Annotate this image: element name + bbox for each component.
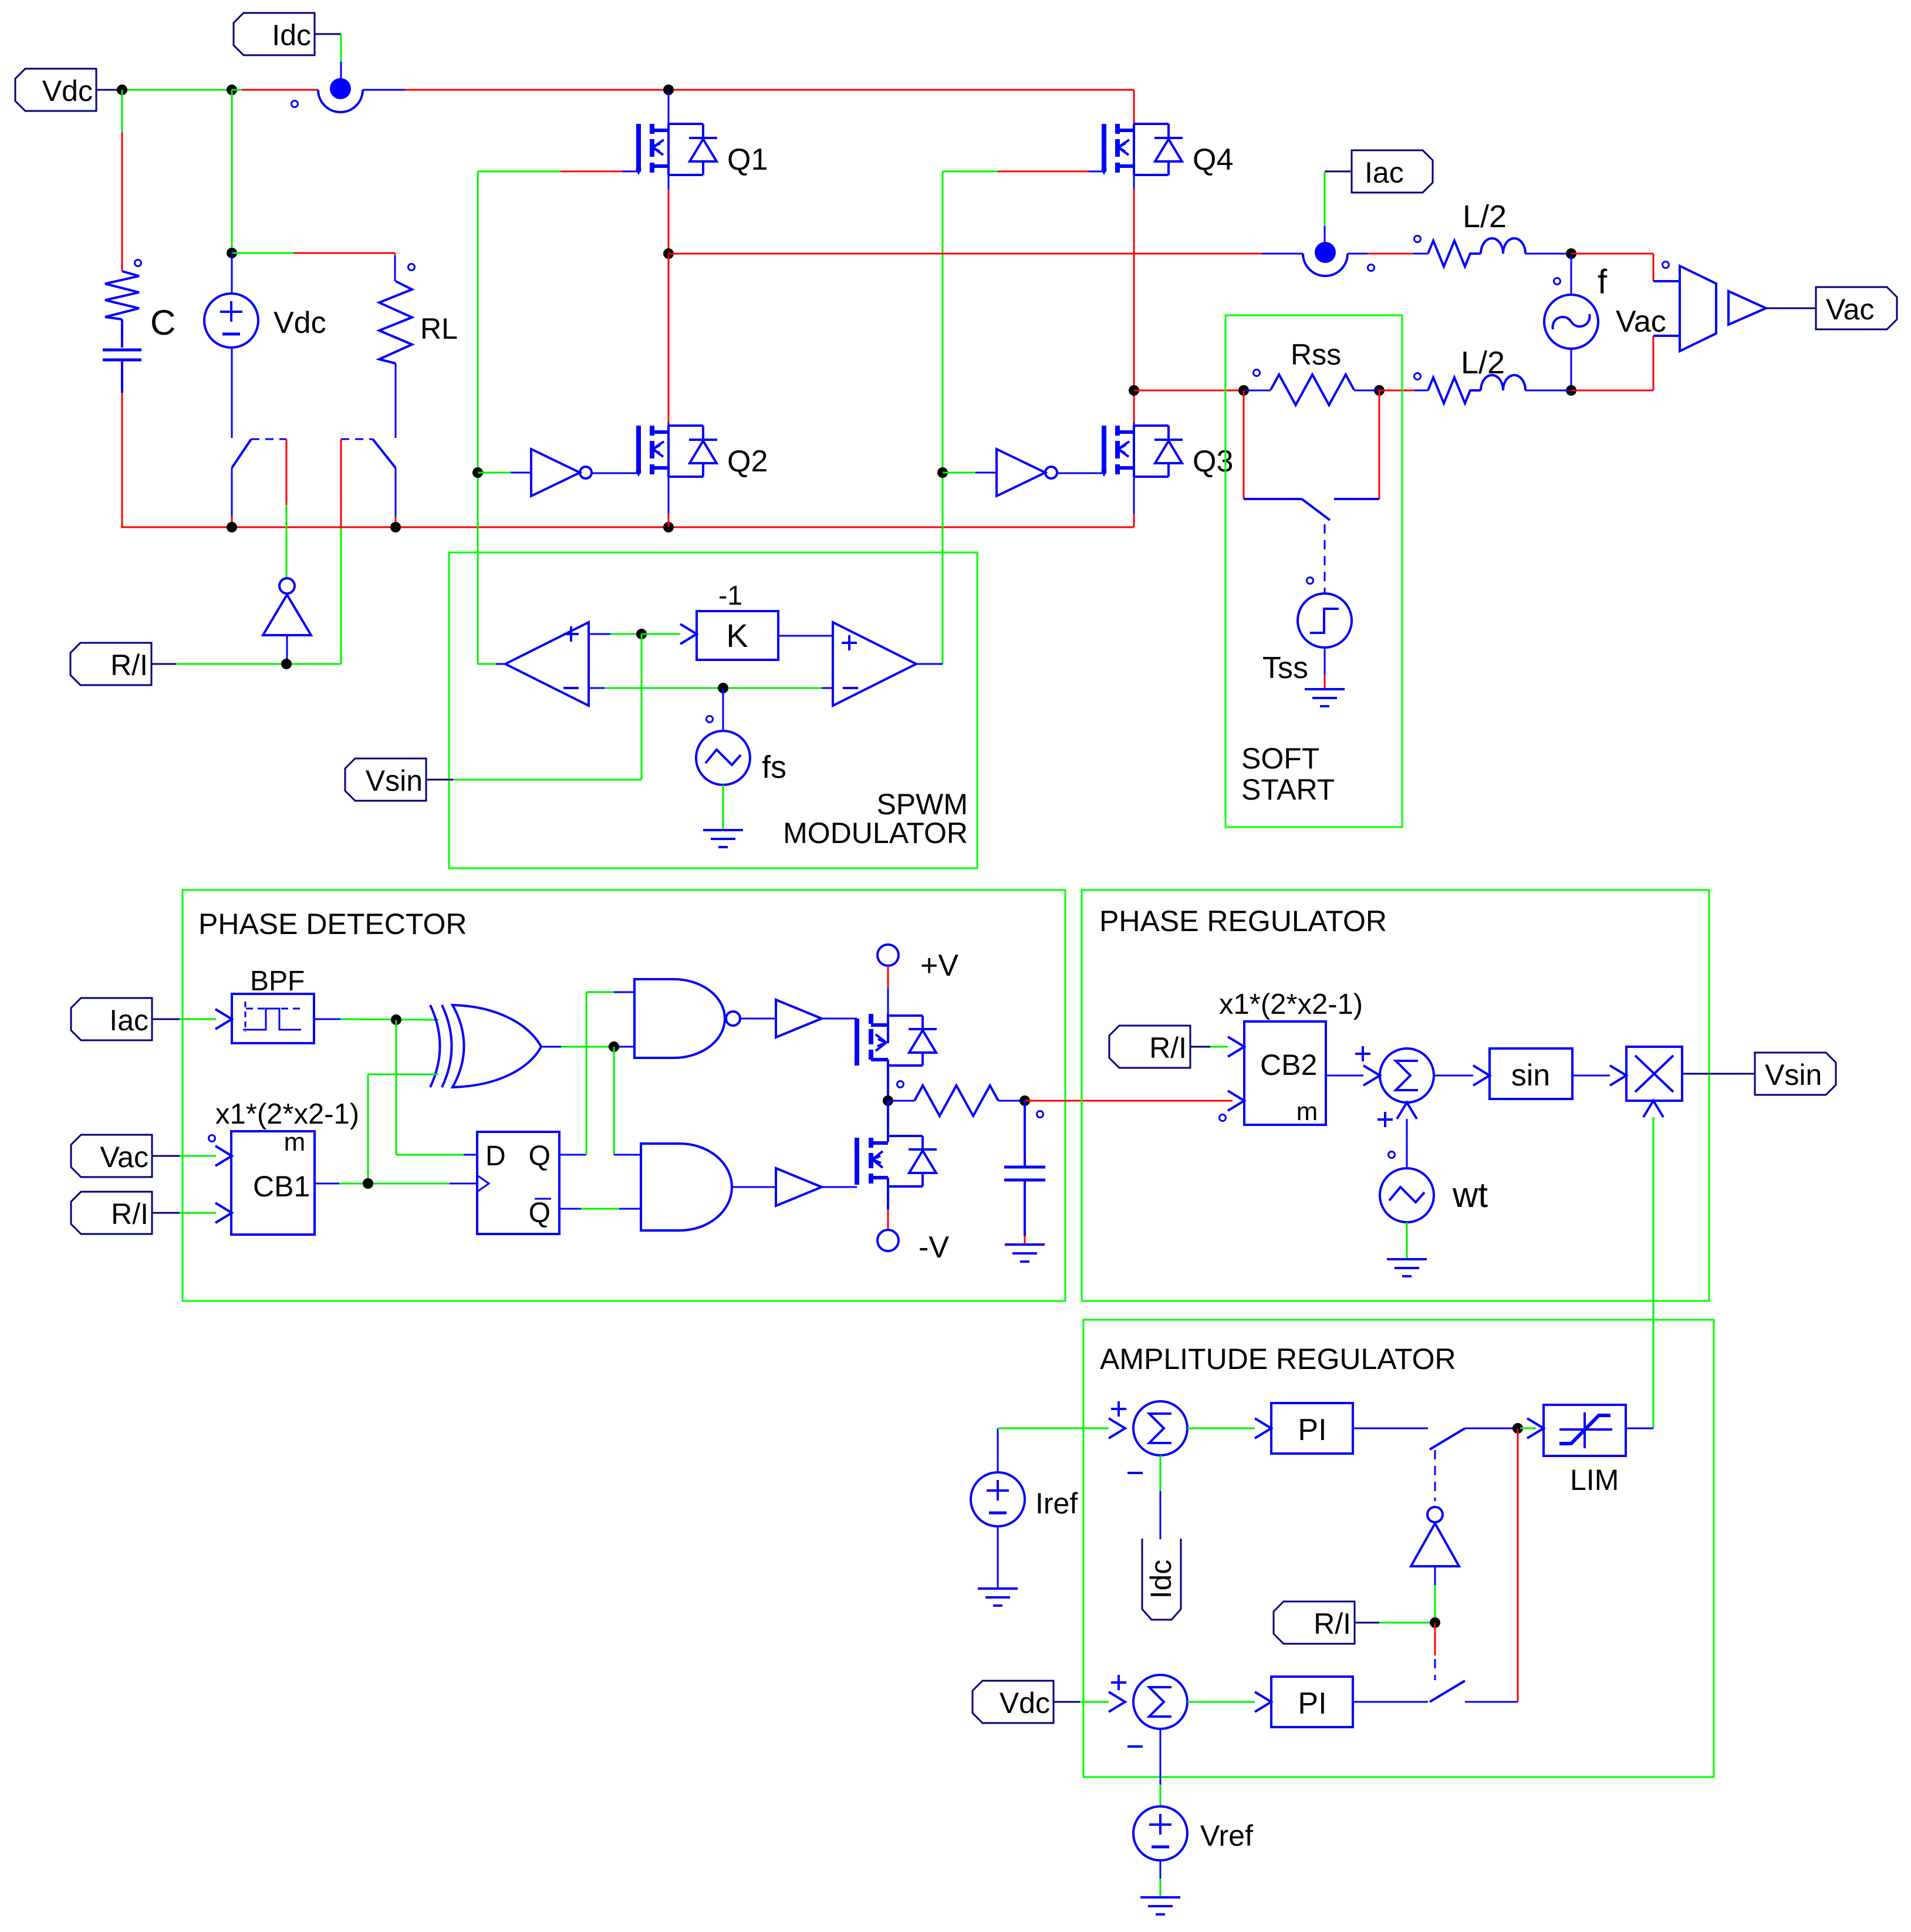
wire summer to sin bbox=[1434, 1066, 1490, 1085]
svg-text:K: K bbox=[726, 617, 748, 654]
junction output node top bbox=[1566, 248, 1576, 259]
wire PI1 to switch bbox=[1353, 1428, 1428, 1429]
label -1 bbox=[718, 580, 742, 611]
svg-text:MODULATOR: MODULATOR bbox=[783, 817, 968, 849]
tag Idc (rotated) bbox=[1142, 1539, 1181, 1620]
junction bottom rail Vdc bbox=[227, 522, 237, 532]
wire Vsin node to K bbox=[641, 624, 697, 644]
svg-text:CB1: CB1 bbox=[253, 1170, 310, 1203]
svg-text:x1*(2*x2-1): x1*(2*x2-1) bbox=[215, 1098, 359, 1130]
junction top rail at Q1 bbox=[663, 85, 674, 95]
svg-text:START: START bbox=[1241, 773, 1335, 806]
box SOFT START bbox=[1225, 315, 1402, 827]
svg-text:m: m bbox=[1296, 1097, 1318, 1126]
tag R/I (rectifier/inverter mode) bbox=[70, 643, 176, 685]
gate NAND1 bbox=[634, 979, 740, 1058]
gain block K (-1) bbox=[697, 611, 778, 660]
resistor RL bbox=[379, 264, 415, 439]
wire Rss to L/2 bottom bbox=[1379, 390, 1428, 392]
block CB2 x1*(2*x2-1) bbox=[1220, 1021, 1326, 1126]
label C bbox=[150, 303, 175, 342]
svg-text:L/2: L/2 bbox=[1461, 345, 1505, 380]
wire output bottom to probe bbox=[1571, 336, 1680, 390]
wire Q4 gate bbox=[943, 171, 1104, 173]
junction bottom rail Q2 bbox=[663, 522, 674, 532]
wire inverter output rail (midpoint to L/2) bbox=[668, 253, 1303, 255]
wire R/I to CB1 bbox=[180, 1203, 232, 1223]
svg-text:Q2: Q2 bbox=[727, 444, 768, 478]
box PHASE DETECTOR bbox=[183, 890, 1065, 1301]
wire CMP1 plus input bbox=[589, 633, 641, 635]
box AMPLITUDE REGULATOR bbox=[1083, 1320, 1714, 1777]
label wt bbox=[1452, 1175, 1488, 1215]
label SPWM MODULATOR bbox=[783, 788, 968, 849]
label Q1 bbox=[727, 143, 768, 177]
block sin bbox=[1490, 1048, 1572, 1099]
svg-text:Q4: Q4 bbox=[1193, 143, 1233, 177]
inverter NOT gate for S1 (pointing up) bbox=[263, 578, 311, 664]
wire CB2 to summer bbox=[1326, 1066, 1380, 1085]
wire PI2 to switch bbox=[1353, 1701, 1428, 1703]
svg-text:-V: -V bbox=[919, 1230, 949, 1265]
wire Vdc node vertical bbox=[231, 90, 233, 253]
label x1*(2*x2-1) CB2 bbox=[1219, 989, 1363, 1020]
svg-text:wt: wt bbox=[1452, 1175, 1488, 1215]
wire Iac to BPF bbox=[180, 1009, 232, 1029]
ground (Iref) bbox=[978, 1589, 1018, 1606]
label Q2 bbox=[727, 444, 768, 478]
svg-text:L/2: L/2 bbox=[1463, 199, 1507, 234]
wire Vdc node to RL corner bbox=[232, 253, 395, 281]
label LIM bbox=[1570, 1464, 1619, 1496]
step source Tss bbox=[1298, 578, 1352, 648]
wire AND to buffer bbox=[732, 1186, 776, 1188]
svg-text:Vdc: Vdc bbox=[1000, 1687, 1050, 1719]
wire L/2 top to output node bbox=[1525, 253, 1571, 255]
svg-text:R/I: R/I bbox=[1149, 1031, 1187, 1064]
wire Vsin to plus node bbox=[453, 634, 641, 780]
transistor M1 (pull-up) bbox=[857, 1014, 937, 1101]
ground (soft start) bbox=[1305, 689, 1345, 706]
junction Rss right bbox=[1374, 385, 1385, 396]
voltage sensor Vac probe bbox=[1663, 262, 1717, 352]
capacitor C (RC branch) bbox=[103, 260, 141, 393]
wire sin to multiplier bbox=[1572, 1066, 1626, 1085]
transistor Q4 (MOSFET) bbox=[1102, 124, 1183, 175]
junction XOR output node bbox=[609, 1041, 619, 1052]
svg-text:R/I: R/I bbox=[1314, 1607, 1351, 1640]
wire summer to PI1 bbox=[1187, 1418, 1271, 1438]
block LIM (limiter) bbox=[1544, 1405, 1626, 1456]
tag Idc (dc current label) bbox=[234, 13, 341, 55]
svg-text:R/I: R/I bbox=[111, 1198, 148, 1230]
comparator CMP1 (left leg) bbox=[505, 622, 589, 706]
junction Vsin node bbox=[636, 629, 647, 639]
label -V bbox=[919, 1230, 949, 1265]
wire PD output to CB2 bbox=[1025, 1101, 1233, 1118]
svg-text:sin: sin bbox=[1511, 1058, 1550, 1093]
wire R/I to CB2 bbox=[1210, 1037, 1244, 1057]
wire SW2 to LIM node bbox=[1517, 1428, 1519, 1702]
svg-text:Tss: Tss bbox=[1262, 651, 1308, 685]
wire XOR node to AND upper input bbox=[614, 1047, 641, 1155]
summer S3 (phase) bbox=[1355, 1046, 1434, 1127]
svg-text:SOFT: SOFT bbox=[1241, 742, 1319, 775]
transistor Q1 (MOSFET) bbox=[636, 90, 717, 175]
junction R/I at NOT gate bbox=[281, 659, 292, 669]
svg-text:Q: Q bbox=[529, 1198, 551, 1229]
label +V bbox=[920, 949, 958, 983]
label RL bbox=[420, 312, 458, 345]
wire Q4 drain to Q3 bbox=[1133, 175, 1135, 426]
transistor Q3 (MOSFET) bbox=[1102, 426, 1183, 477]
tag R/I (PR input) bbox=[1109, 1026, 1210, 1068]
junction CB1 output node bbox=[363, 1178, 373, 1189]
wire XOR output bbox=[541, 1046, 634, 1048]
wire top rail to Idc sensor bbox=[232, 89, 318, 91]
comparator CMP2 (right leg) bbox=[833, 622, 916, 706]
wire gate bus vertical (right leg) bbox=[942, 171, 944, 664]
label Q3 bbox=[1193, 444, 1233, 478]
svg-text:Iac: Iac bbox=[1365, 156, 1404, 189]
svg-text:PHASE REGULATOR: PHASE REGULATOR bbox=[1099, 905, 1387, 938]
wire buffer to M1 gate bbox=[822, 1018, 857, 1020]
svg-text:Vref: Vref bbox=[1200, 1819, 1253, 1852]
summer S2 (voltage loop) bbox=[1111, 1675, 1187, 1746]
svg-text:Vdc: Vdc bbox=[42, 75, 93, 107]
label L/2 bottom bbox=[1461, 345, 1505, 380]
svg-text:Vdc: Vdc bbox=[274, 306, 326, 340]
ground (wt) bbox=[1387, 1259, 1427, 1276]
wire K output to CMP2 plus bbox=[778, 635, 833, 637]
buffer U6 (low side) bbox=[776, 1168, 822, 1206]
svg-text:Vsin: Vsin bbox=[366, 764, 423, 797]
switch SW2 (mode select lower) bbox=[1430, 1681, 1518, 1702]
dc source Iref bbox=[971, 1428, 1025, 1589]
label Vdc source bbox=[274, 306, 326, 340]
node junction at Vdc column bbox=[227, 85, 237, 95]
tag R/I (mode input) bbox=[1274, 1601, 1379, 1644]
triangle source wt bbox=[1380, 1168, 1434, 1222]
svg-text:Vsin: Vsin bbox=[1765, 1058, 1822, 1091]
wire Idc tag drop to sensor bbox=[340, 34, 342, 79]
svg-text:LIM: LIM bbox=[1570, 1464, 1619, 1496]
current sensor Idc bbox=[292, 78, 363, 112]
switch Sss (soft start bypass) bbox=[1244, 499, 1379, 520]
wire mode node to SW2 control bbox=[1434, 1623, 1436, 1680]
resistor Rss bbox=[1244, 370, 1379, 406]
junction gate bus at Q2 NOT bbox=[472, 467, 483, 478]
box SPWM MODULATOR bbox=[449, 552, 977, 868]
inductor L/2 bottom (RL branch) bbox=[1414, 373, 1526, 404]
svg-text:Q3: Q3 bbox=[1193, 444, 1233, 478]
NOT gate U7 (mode invert) bbox=[1411, 1450, 1459, 1623]
label BPF bbox=[250, 966, 305, 997]
tag Vac output bbox=[1816, 287, 1897, 329]
wire bottom rail bbox=[121, 527, 1134, 528]
NOT gate U3 (Q3 driver) bbox=[943, 449, 1104, 496]
tag Iac (output current) bbox=[1325, 150, 1433, 193]
wire Qbar to AND lower input bbox=[559, 1208, 641, 1210]
svg-text:Rss: Rss bbox=[1291, 338, 1341, 371]
block PI1 bbox=[1271, 1403, 1353, 1454]
gate XOR1 bbox=[430, 1005, 541, 1087]
wire BPF output bbox=[314, 1019, 438, 1020]
junction gate bus at Q3 NOT bbox=[937, 467, 948, 478]
junction filter node bbox=[1019, 1095, 1030, 1106]
wire R/I to junction bbox=[1379, 1622, 1435, 1624]
junction mode node bbox=[1430, 1617, 1440, 1628]
junction BPF output node bbox=[391, 1014, 401, 1025]
switch S2 (RL column) bbox=[341, 439, 396, 527]
wire Q2 source to rail bbox=[668, 477, 670, 527]
wire Sss control linkage bbox=[1324, 524, 1326, 594]
triangle carrier source fs bbox=[696, 688, 750, 785]
junction bottom rail RL bbox=[390, 522, 401, 532]
wire left leg midpoint to Q2 bbox=[668, 254, 670, 426]
svg-text:Idc: Idc bbox=[272, 19, 311, 52]
wire Vdc to summer bbox=[1080, 1692, 1125, 1712]
label Tss bbox=[1262, 651, 1308, 685]
junction Vdc source top bbox=[227, 248, 237, 258]
wire Vac to CB1 bbox=[180, 1146, 232, 1166]
svg-text:f: f bbox=[1598, 263, 1608, 301]
label Q4 bbox=[1193, 143, 1233, 177]
wire Iref to summer bbox=[998, 1418, 1125, 1438]
junction left leg midpoint bbox=[663, 248, 674, 259]
wire fs to ground bbox=[722, 785, 724, 830]
wire L/2 bottom to output node bbox=[1525, 390, 1571, 392]
svg-text:C: C bbox=[150, 303, 175, 342]
tag Vsin output bbox=[1755, 1053, 1836, 1095]
junction LIM input node bbox=[1512, 1423, 1523, 1434]
switch SW1 (mode select upper) bbox=[1430, 1428, 1518, 1449]
label SOFT START bbox=[1241, 742, 1335, 806]
wire NAND to buffer bbox=[740, 1018, 776, 1020]
tag R/I (PD input) bbox=[71, 1192, 180, 1234]
tag Vdc (dc bus voltage) bbox=[15, 69, 122, 111]
wire wt to ground bbox=[1406, 1222, 1408, 1259]
wire LIM output up bbox=[1626, 1428, 1653, 1429]
label PHASE REGULATOR bbox=[1099, 905, 1387, 938]
wire Vref to ground bbox=[1160, 1860, 1162, 1897]
label Iref bbox=[1035, 1487, 1078, 1520]
tag Vac (PD input) bbox=[71, 1135, 180, 1177]
wire Q output to NAND upper input bbox=[559, 992, 634, 1155]
wire R/I to switch controls bbox=[176, 663, 341, 665]
label x1*(2*x2-1) CB1 bbox=[215, 1098, 359, 1130]
switch S1 (Vdc column) bbox=[232, 439, 286, 527]
wire sensor to L/2 top bbox=[1348, 253, 1428, 255]
buffer U5 (high side) bbox=[776, 1000, 822, 1037]
block CB1 x1*(2*x2-1) bbox=[209, 1128, 315, 1235]
wire buffer to M2 gate bbox=[822, 1186, 857, 1188]
wire C bottom to rail bbox=[121, 393, 123, 527]
capacitor C1 (PD filter) bbox=[1004, 1101, 1045, 1245]
wire Iac tag drop bbox=[1324, 171, 1326, 244]
block BPF (band pass filter) bbox=[232, 994, 314, 1043]
svg-text:R/I: R/I bbox=[110, 649, 148, 682]
terminal +V bbox=[877, 945, 899, 1014]
wire to LIM bbox=[1520, 1418, 1544, 1438]
wire gate bus vertical (left leg) bbox=[477, 171, 479, 662]
resistor R1 (PD output) bbox=[888, 1081, 1025, 1117]
svg-text:Q1: Q1 bbox=[727, 143, 768, 177]
flip-flop FF1 (D) bbox=[477, 1132, 559, 1234]
svg-text:PI: PI bbox=[1298, 1687, 1326, 1721]
label Rss bbox=[1291, 338, 1341, 371]
wire CMP2 output to right gate bus bbox=[916, 663, 943, 665]
svg-text:BPF: BPF bbox=[250, 966, 305, 997]
wire multiplier to Vsin tag bbox=[1682, 1073, 1755, 1075]
wire BPF node down to D input bbox=[396, 1020, 477, 1155]
wire CMP1 output to gate bus bbox=[478, 662, 505, 664]
wire top rail Vdc to C node bbox=[121, 89, 232, 91]
wire S1 control drop bbox=[286, 439, 288, 577]
capacitor C column wire bbox=[121, 90, 123, 271]
svg-text:CB2: CB2 bbox=[1260, 1048, 1317, 1081]
svg-text:Q: Q bbox=[529, 1141, 551, 1172]
junction carrier node bbox=[718, 683, 728, 693]
svg-text:Vac: Vac bbox=[100, 1141, 148, 1174]
label fs bbox=[762, 750, 786, 785]
inductor L/2 top (RL branch) bbox=[1414, 236, 1526, 267]
ac source f (grid) bbox=[1544, 254, 1598, 390]
junction output node bottom bbox=[1566, 385, 1576, 396]
amplifier buffer (Vac sensor) bbox=[1728, 291, 1816, 325]
svg-text:Idc: Idc bbox=[1144, 1560, 1177, 1599]
svg-text:-1: -1 bbox=[718, 580, 742, 611]
box PHASE REGULATOR bbox=[1082, 890, 1709, 1301]
svg-text:+V: +V bbox=[920, 949, 958, 983]
wire Idc tag to summer minus bbox=[1160, 1455, 1162, 1539]
wire XOR lower input bbox=[368, 1074, 438, 1184]
svg-text:Vac: Vac bbox=[1826, 293, 1874, 326]
block PI2 bbox=[1271, 1677, 1353, 1727]
junction M1/M2 midpoint bbox=[883, 1095, 893, 1106]
label PHASE DETECTOR bbox=[198, 908, 467, 940]
wire Rss bypass right drop bbox=[1379, 390, 1380, 499]
wire top rail sensor to Q1 bbox=[363, 89, 668, 91]
ground (fs) bbox=[703, 830, 743, 847]
ground (PD filter) bbox=[1005, 1245, 1045, 1262]
wire Tss to ground bbox=[1324, 648, 1326, 689]
gate AND1 bbox=[641, 1144, 732, 1230]
multiplier X1 bbox=[1626, 1047, 1682, 1101]
svg-text:AMPLITUDE REGULATOR: AMPLITUDE REGULATOR bbox=[1100, 1343, 1456, 1375]
NOT gate U2 (Q2 driver) bbox=[478, 449, 639, 496]
ground (Vref) bbox=[1140, 1897, 1180, 1914]
label L/2 top bbox=[1463, 199, 1507, 234]
tag Iac (PD input) bbox=[71, 998, 180, 1040]
wire CB1 output to clock bbox=[315, 1183, 477, 1185]
svg-text:fs: fs bbox=[762, 750, 786, 785]
wire S2 control drop bbox=[340, 439, 342, 664]
junction right leg midpoint bbox=[1129, 385, 1139, 396]
svg-text:RL: RL bbox=[420, 312, 458, 345]
wire output top to probe bbox=[1571, 254, 1680, 281]
summer S1 (current loop) bbox=[1111, 1401, 1187, 1473]
svg-text:PHASE DETECTOR: PHASE DETECTOR bbox=[198, 908, 467, 940]
transistor M2 (pull-down) bbox=[857, 1101, 937, 1209]
wire Q1 gate bbox=[478, 171, 639, 173]
wire summer to PI2 bbox=[1187, 1692, 1271, 1712]
dc source Vdc bbox=[204, 253, 258, 438]
transistor Q2 (MOSFET) bbox=[636, 426, 717, 477]
tag Vdc (AR input) bbox=[973, 1681, 1080, 1723]
label Vref bbox=[1200, 1819, 1253, 1852]
svg-text:D: D bbox=[485, 1141, 506, 1172]
label AMPLITUDE REGULATOR bbox=[1100, 1343, 1456, 1375]
svg-text:SPWM: SPWM bbox=[876, 788, 968, 821]
label f bbox=[1598, 263, 1608, 301]
wire carrier bus (minus inputs) bbox=[589, 687, 833, 689]
wire PD signal into CB2 bbox=[1228, 1091, 1244, 1111]
tag Vsin input bbox=[345, 758, 453, 801]
svg-text:Iref: Iref bbox=[1035, 1487, 1078, 1520]
wire summer2 minus drop bbox=[1160, 1729, 1162, 1806]
junction Rss left bbox=[1238, 385, 1249, 396]
svg-text:x1*(2*x2-1): x1*(2*x2-1) bbox=[1219, 989, 1363, 1020]
wire Rss bypass left drop bbox=[1243, 390, 1245, 499]
svg-text:Vac: Vac bbox=[1616, 305, 1666, 339]
wire wt to summer bbox=[1389, 1102, 1417, 1168]
current sensor Iac bbox=[1303, 242, 1375, 276]
node junction at C column bbox=[117, 85, 127, 95]
svg-text:m: m bbox=[284, 1128, 306, 1156]
wire Q1 drain to midpoint bbox=[668, 175, 670, 254]
wire LIM feedback to multiplier bbox=[1643, 1101, 1663, 1428]
wire top rail Q1 to Q4 bbox=[668, 90, 1134, 124]
label Vac near probe bbox=[1616, 305, 1666, 339]
svg-text:Iac: Iac bbox=[109, 1004, 148, 1037]
wire right midpoint to Rss line bbox=[1134, 390, 1244, 392]
svg-text:PI: PI bbox=[1298, 1413, 1326, 1447]
wire Q3 source to rail bbox=[1133, 477, 1135, 527]
terminal -V bbox=[877, 1209, 899, 1251]
dc source Vref bbox=[1133, 1806, 1187, 1860]
